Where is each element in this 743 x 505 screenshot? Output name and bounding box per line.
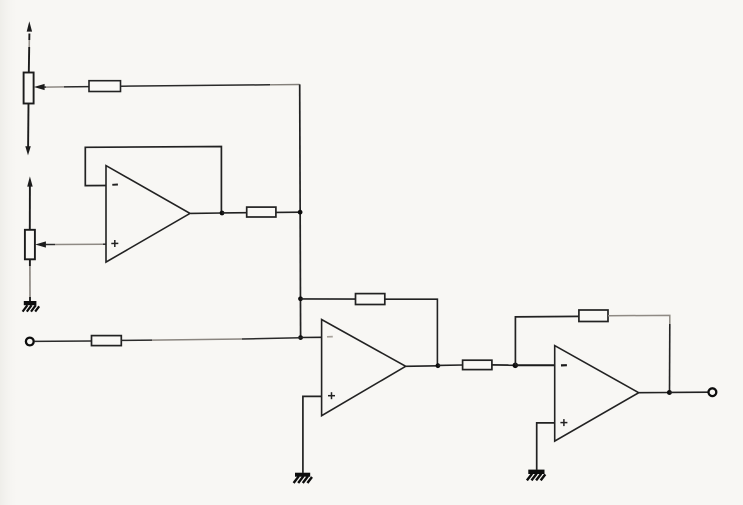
- input terminal: [26, 338, 34, 346]
- wire R5 to J5: [492, 364, 516, 366]
- wire J6 to output terminal: [669, 391, 707, 393]
- wire J3 to U2 minus input: [301, 336, 322, 338]
- output terminal: [709, 388, 717, 396]
- resistor R1: [89, 81, 121, 92]
- op-amp U3: [555, 346, 639, 442]
- wire R4 to J3: [121, 338, 300, 341]
- junction dot J1: [298, 210, 303, 215]
- wire U3 output: [639, 392, 670, 394]
- ground G2: [294, 473, 312, 483]
- ground G1: [23, 301, 40, 312]
- wire J2 to R3: [301, 298, 356, 300]
- ground G3: [527, 470, 545, 481]
- wire P2 wiper to U1 plus input: [46, 243, 107, 245]
- resistor R5: [463, 360, 492, 369]
- resistor R6: [579, 310, 608, 322]
- wire J0 to R2: [222, 212, 247, 214]
- wire J5 to U3 minus input: [515, 364, 554, 366]
- potentiometer P1: [24, 21, 45, 155]
- resistor R3: [356, 294, 385, 305]
- junction dot J0: [220, 211, 225, 216]
- wire U1 feedback loop: [85, 147, 221, 213]
- wire R6 to output node: [608, 315, 670, 392]
- op-amp U1: [106, 166, 190, 263]
- wire R2 to bus: [276, 211, 300, 213]
- wire U3 feedback loop left: [515, 316, 579, 365]
- junction dot J2: [298, 296, 303, 301]
- op-amp U2: [322, 320, 406, 416]
- resistor R2: [247, 207, 276, 217]
- wire input terminal to R4: [34, 340, 91, 342]
- wire vertical bus: [299, 84, 302, 337]
- wire U2 output: [406, 365, 438, 368]
- junction dot J5: [513, 363, 519, 369]
- junction dot J3: [298, 335, 303, 340]
- wire U2 plus input to ground: [303, 396, 322, 473]
- junction dot J6: [667, 390, 672, 395]
- wire U1 output: [191, 212, 223, 214]
- wire R1 to vertical bus corner: [121, 85, 300, 87]
- wire R3 to U2 output node: [385, 299, 438, 366]
- wire P1 wiper to R1: [44, 86, 89, 89]
- junction dot J4: [436, 363, 441, 368]
- resistor R4: [92, 336, 122, 346]
- wire U3 plus input to ground: [537, 423, 555, 470]
- potentiometer P2: [25, 176, 46, 301]
- wire J4 to R5: [438, 364, 463, 366]
